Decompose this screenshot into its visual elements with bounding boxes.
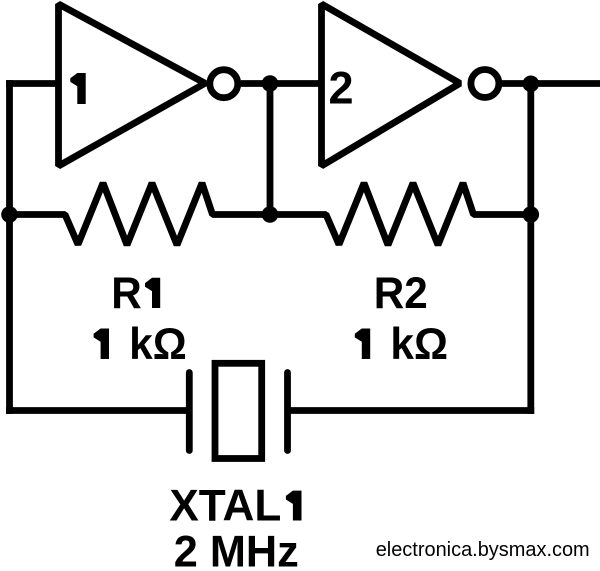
svg-text:2: 2 bbox=[328, 63, 353, 114]
crystal XTAL1 right plate bbox=[284, 373, 291, 451]
wire: right rail bbox=[527, 84, 534, 411]
wire: inverter 2 output to right edge bbox=[502, 80, 600, 87]
wire: inverter 1 input from left rail bbox=[10, 80, 63, 87]
junction dot: left rail / R1 bbox=[1, 206, 18, 223]
inverter U2 bbox=[322, 4, 461, 166]
inversion bubble U1 bbox=[210, 70, 238, 98]
junction dot: R1 / R2 node bbox=[262, 206, 279, 223]
resistor R1 bbox=[10, 183, 271, 245]
crystal XTAL1 body bbox=[215, 363, 262, 458]
wire: inverter 1 output to inverter 2 input bbox=[241, 80, 322, 87]
glyph masks for digit 1 restyling bbox=[64, 69, 380, 362]
svg-text:2 MHz: 2 MHz bbox=[174, 527, 299, 571]
wire: bottom run from left rail to crystal left plate bbox=[10, 407, 187, 414]
resistor R2 bbox=[270, 183, 531, 245]
svg-text:R2: R2 bbox=[374, 269, 428, 318]
junction dot: R2 / right rail bbox=[523, 206, 540, 223]
inverter U1 bbox=[59, 4, 206, 166]
wire: U1 output node down to resistor row bbox=[267, 84, 274, 215]
wire: crystal right plate to right rail bbox=[291, 407, 531, 414]
crystal XTAL1 left plate bbox=[186, 373, 193, 451]
svg-text:electronica.bysmax.com: electronica.bysmax.com bbox=[376, 539, 590, 561]
inversion bubble U2 bbox=[471, 70, 499, 98]
junction dot: U2 output node bbox=[523, 76, 540, 93]
wire: left rail bbox=[6, 84, 13, 411]
junction dot: U1 output node bbox=[262, 75, 279, 92]
custom drawn digit 1 glyphs (Arial style) bbox=[70, 73, 370, 359]
full mask + custom drawn digit 1 of XTAL1 bbox=[283, 488, 308, 523]
